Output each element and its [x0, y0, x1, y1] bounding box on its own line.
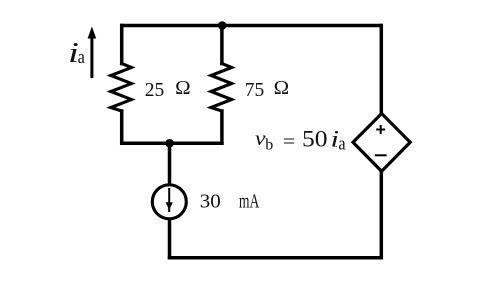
svg-text:a: a — [338, 134, 346, 155]
svg-text:Ω: Ω — [274, 78, 290, 99]
svg-text:=: = — [283, 131, 296, 153]
svg-text:b: b — [265, 137, 273, 154]
svg-text:30: 30 — [200, 190, 221, 212]
svg-text:50: 50 — [302, 126, 328, 151]
svg-text:v: v — [255, 128, 266, 150]
svg-text:25: 25 — [145, 80, 165, 101]
svg-text:a: a — [78, 47, 86, 68]
svg-text:75: 75 — [245, 80, 264, 101]
svg-text:mA: mA — [239, 190, 260, 212]
svg-text:Ω: Ω — [175, 78, 191, 99]
